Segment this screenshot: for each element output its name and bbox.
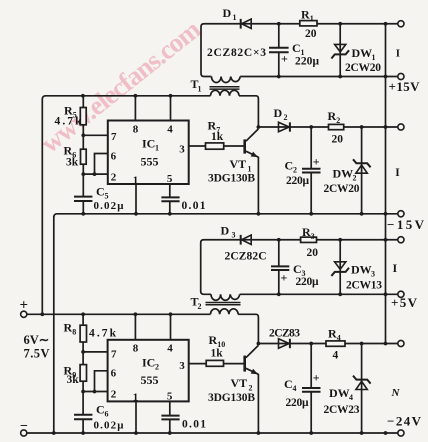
- svg-text:DW: DW: [352, 46, 373, 60]
- junction dots 2CZ83 rail right: [360, 342, 364, 346]
- transistor VT1 3DG130B base bar: [243, 139, 246, 153]
- wire: pin 6 bracket of IC2: [95, 371, 108, 392]
- wire: supply bus to T1 bottom winding: [45, 95, 211, 97]
- resistor R5 4.7k: [82, 96, 84, 108]
- svg-text:220μ: 220μ: [295, 56, 319, 68]
- svg-text:2CW23: 2CW23: [324, 404, 360, 416]
- svg-text:3: 3: [311, 232, 315, 241]
- svg-text:I: I: [393, 261, 398, 275]
- junction dots on supply bus: [81, 94, 85, 98]
- IC1 555 timer box: [108, 121, 189, 185]
- transformer T2 core: [206, 303, 241, 305]
- resistor R7 1k: [206, 143, 224, 149]
- svg-text:8: 8: [72, 328, 76, 337]
- svg-text:−24V: −24V: [387, 414, 422, 429]
- junction dot C4 top: [309, 342, 313, 346]
- output terminal II-: [398, 211, 404, 217]
- svg-text:6: 6: [111, 368, 117, 380]
- svg-text:R: R: [302, 225, 311, 239]
- pin 1 wire of IC1: [135, 184, 137, 214]
- junction dot C2 top: [309, 125, 313, 129]
- svg-text:8: 8: [133, 124, 139, 136]
- svg-text:20: 20: [332, 134, 344, 146]
- svg-text:4: 4: [167, 124, 173, 136]
- svg-text:R: R: [328, 327, 337, 341]
- svg-text:0.02μ: 0.02μ: [94, 420, 125, 432]
- capacitor C6 0.02u: [74, 415, 92, 419]
- svg-text:R: R: [64, 321, 73, 335]
- diode D3 2CZ82C: [240, 235, 242, 245]
- capacitor C5 0.02u: [74, 197, 92, 201]
- svg-text:20: 20: [305, 28, 317, 40]
- svg-text:2: 2: [336, 116, 340, 125]
- svg-text:+5V: +5V: [391, 295, 418, 310]
- svg-text:0.02μ: 0.02μ: [94, 200, 125, 212]
- junction node R6/C5/pin2: [81, 172, 85, 176]
- VT2 collector lead: [246, 345, 259, 357]
- diode 2CZ83: [279, 339, 290, 349]
- wire: 2CZ83 rail: [258, 343, 397, 345]
- resistor R6 3k: [81, 149, 87, 164]
- svg-text:2: 2: [111, 389, 117, 401]
- svg-text:4: 4: [167, 343, 173, 355]
- svg-text:D: D: [221, 224, 230, 238]
- resistor R10 1k: [206, 360, 223, 366]
- junction dot left frame to plus bus: [40, 312, 44, 316]
- svg-text:IC: IC: [142, 356, 155, 370]
- svg-text:R: R: [328, 109, 337, 123]
- svg-text:5: 5: [167, 391, 173, 403]
- svg-text:R: R: [301, 8, 310, 22]
- svg-text:1: 1: [155, 144, 159, 153]
- svg-text:DW: DW: [333, 167, 354, 181]
- svg-text:5: 5: [167, 173, 173, 185]
- resistor R1: [300, 21, 317, 26]
- svg-text:1: 1: [198, 85, 202, 94]
- svg-text:1k: 1k: [211, 348, 224, 360]
- svg-text:IC: IC: [142, 137, 155, 151]
- svg-text:2: 2: [353, 174, 357, 183]
- svg-text:2: 2: [293, 166, 297, 175]
- capacitor C2 220u: [310, 127, 312, 168]
- pin 8 wire of IC1: [134, 96, 136, 121]
- junction node R8/R9 to pin7: [81, 350, 85, 354]
- svg-text:DW: DW: [351, 263, 372, 277]
- junction node R5/R6 to pin7: [81, 133, 85, 137]
- svg-text:220μ: 220μ: [286, 175, 309, 187]
- svg-text:+: +: [281, 271, 288, 285]
- zener diode DW1 2CW20: [339, 24, 341, 77]
- svg-text:3: 3: [232, 231, 236, 240]
- junction dots section III top rail: [277, 238, 281, 242]
- svg-text:I: I: [396, 48, 400, 60]
- junction dots on minus bus: [52, 431, 56, 435]
- svg-text:555: 555: [141, 373, 159, 387]
- input terminal +: [21, 311, 27, 317]
- svg-text:4.7k: 4.7k: [55, 116, 83, 128]
- svg-text:4: 4: [337, 334, 341, 343]
- svg-text:2CZ82C×3: 2CZ82C×3: [207, 47, 266, 59]
- svg-text:DW: DW: [329, 386, 350, 400]
- svg-text:6: 6: [105, 410, 109, 419]
- svg-text:3: 3: [371, 270, 375, 279]
- output terminal III+: [398, 237, 404, 243]
- svg-text:4: 4: [293, 384, 297, 393]
- svg-text:3DG130B: 3DG130B: [208, 173, 255, 185]
- pin 5 wire of IC2 to 0.01 cap: [169, 401, 171, 415]
- svg-text:C: C: [96, 403, 105, 417]
- svg-text:C: C: [285, 159, 294, 173]
- wire: R7 to VT1 base: [224, 145, 244, 147]
- transformer T1 primary winding (bottom): [211, 90, 240, 96]
- svg-text:1: 1: [233, 13, 237, 22]
- diode D1 2CZ82C: [240, 19, 242, 29]
- junction node R9/C6/pin2: [81, 390, 85, 394]
- svg-text:3k: 3k: [66, 157, 79, 169]
- resistor R8 4.7k: [82, 314, 84, 325]
- svg-text:R: R: [209, 333, 218, 347]
- svg-text:R: R: [64, 144, 73, 158]
- resistor R3: [301, 237, 317, 242]
- svg-text:2CW13: 2CW13: [346, 280, 382, 292]
- svg-text:555: 555: [141, 155, 159, 169]
- junction node VT2 collector / 2CZ83: [257, 342, 261, 346]
- svg-text:1k: 1k: [211, 131, 224, 143]
- svg-text:4: 4: [349, 393, 353, 402]
- wire: pin 7 of IC1: [83, 134, 108, 136]
- capacitor 0.01 (IC2 pin5): [161, 416, 179, 420]
- svg-text:220μ: 220μ: [286, 397, 309, 409]
- svg-text:−: −: [20, 419, 28, 434]
- output terminal II+: [398, 124, 404, 130]
- svg-text:2: 2: [284, 113, 288, 122]
- zener diode DW4 2CW23: [361, 344, 363, 434]
- svg-text:3k: 3k: [67, 374, 80, 386]
- wire: D2 rail: [258, 126, 397, 128]
- IC2 555 timer box: [108, 340, 189, 402]
- resistor R4: [326, 341, 345, 346]
- svg-text:+: +: [20, 298, 29, 314]
- svg-text:VT: VT: [231, 376, 248, 390]
- transformer T1 core: [210, 87, 240, 89]
- wire: right output stack vertical: [385, 24, 387, 344]
- wire: VT2 emitter down to minus bus: [257, 374, 259, 433]
- svg-text:2CZ82C: 2CZ82C: [225, 251, 267, 263]
- svg-text:220μ: 220μ: [296, 276, 319, 288]
- pin 8 wire of IC2: [134, 314, 136, 340]
- wire: minus bus: [27, 432, 398, 434]
- junction dots on plus bus (IC2 pins 8,4, R8): [81, 312, 85, 316]
- svg-text:C: C: [293, 262, 302, 276]
- svg-text:4: 4: [333, 350, 339, 362]
- capacitor C3 220u: [278, 240, 280, 266]
- wire: input plus bus: [27, 313, 211, 315]
- capacitor C1 220u: [278, 24, 280, 47]
- output terminal I+: [398, 21, 404, 27]
- wire: pin 2 of IC2: [83, 391, 108, 393]
- svg-text:VT: VT: [230, 157, 247, 171]
- svg-text:D: D: [223, 6, 232, 20]
- svg-text:7.5V: 7.5V: [24, 347, 50, 361]
- svg-text:N: N: [391, 387, 401, 399]
- wire: VT1 emitter down to bus: [257, 157, 259, 214]
- VT1 emitter lead with arrow: [246, 151, 259, 157]
- VT1 collector lead: [246, 129, 259, 141]
- svg-text:2: 2: [155, 363, 159, 372]
- pin 4 wire of IC1: [170, 96, 172, 121]
- svg-text:4.7k: 4.7k: [89, 328, 117, 340]
- resistor R9 3k: [80, 365, 86, 382]
- wire: pin 3 of IC2 to R10: [189, 363, 207, 365]
- junction dots section I bottom rail: [277, 75, 281, 79]
- junction dot pin6 bracket: [93, 172, 97, 176]
- output terminal IV+: [398, 340, 404, 346]
- svg-text:+: +: [313, 371, 320, 385]
- svg-text:6: 6: [111, 151, 117, 163]
- junction dots section III bottom rail: [277, 292, 281, 296]
- svg-text:C: C: [96, 185, 105, 199]
- wire: left frame vertical: [42, 96, 45, 314]
- wire: pin 2 of IC1: [83, 173, 108, 175]
- svg-text:6V∼: 6V∼: [24, 333, 50, 347]
- svg-text:+15V: +15V: [389, 79, 421, 94]
- svg-text:7: 7: [111, 131, 117, 143]
- svg-text:D: D: [274, 106, 283, 120]
- svg-text:+: +: [281, 52, 288, 66]
- svg-text:3: 3: [179, 360, 185, 372]
- svg-text:2CW20: 2CW20: [345, 62, 381, 74]
- wire: section II bottom bus: [54, 214, 398, 217]
- junction dot pin6 bracket IC2: [93, 390, 97, 394]
- svg-text:8: 8: [133, 343, 139, 355]
- junction dots D2 rail right: [360, 125, 364, 129]
- zener diode DW2 2CW20: [361, 127, 363, 214]
- wire: section III loop left side and top rail: [201, 240, 398, 295]
- wire: section I loop left side and top rail: [201, 24, 398, 77]
- svg-text:20: 20: [307, 247, 319, 259]
- capacitor 0.01 (IC1 pin5): [161, 197, 179, 201]
- junction node VT1 collector / D2: [257, 125, 261, 129]
- pin 5 wire of IC1 to 0.01 cap: [169, 184, 171, 197]
- wire: T1 primary to VT1 collector: [239, 96, 258, 127]
- output terminal III-: [398, 291, 404, 297]
- wire: R10 to VT2 base: [224, 363, 244, 365]
- svg-text:3DG130B: 3DG130B: [208, 392, 255, 404]
- junction dots section I top rail: [277, 22, 281, 26]
- svg-text:2CW20: 2CW20: [324, 183, 360, 195]
- junction dots on section II bottom bus: [81, 212, 85, 216]
- pin 4 wire of IC2: [170, 314, 172, 340]
- transformer T2 secondary winding (top): [211, 294, 240, 300]
- wire: pin 3 of IC1 to R7: [189, 145, 206, 147]
- svg-text:1: 1: [310, 14, 314, 23]
- svg-text:−15V: −15V: [387, 217, 425, 232]
- output terminal IV-: [398, 430, 404, 436]
- VT2 emitter lead with arrow: [246, 368, 259, 374]
- svg-text:2: 2: [198, 302, 202, 311]
- svg-text:+: +: [313, 155, 320, 169]
- wire: mid vertical to minus bus: [53, 216, 55, 433]
- svg-text:C: C: [292, 41, 301, 55]
- wire: T2 primary to VT2 collector: [238, 314, 258, 343]
- pin 1 wire of IC2: [135, 401, 137, 433]
- diode D2: [279, 122, 290, 132]
- wire: section I bottom rail: [240, 76, 398, 78]
- svg-text:3: 3: [179, 144, 185, 156]
- wire: section III bottom rail: [240, 293, 398, 295]
- svg-text:0.01: 0.01: [182, 200, 206, 212]
- resistor R2: [329, 124, 344, 129]
- svg-text:1: 1: [372, 53, 376, 62]
- capacitor C4 220u: [310, 344, 312, 388]
- transformer T1 secondary winding (top): [212, 77, 241, 83]
- svg-text:I: I: [395, 167, 400, 179]
- wire: pin 6 bracket of IC1: [95, 154, 108, 175]
- output terminal I-: [398, 73, 404, 79]
- svg-text:2: 2: [111, 172, 117, 184]
- wire: pin 7 of IC2: [83, 351, 108, 353]
- input terminal minus: [21, 430, 27, 436]
- svg-text:C: C: [284, 377, 293, 391]
- transistor VT2 3DG130B base bar: [243, 356, 246, 372]
- svg-text:2CZ83: 2CZ83: [269, 328, 300, 340]
- svg-text:0.01: 0.01: [182, 419, 206, 431]
- svg-text:7: 7: [111, 349, 117, 361]
- zener diode DW3 2CW13: [339, 240, 341, 295]
- transformer T2 primary winding (bottom) on plus bus: [211, 309, 239, 315]
